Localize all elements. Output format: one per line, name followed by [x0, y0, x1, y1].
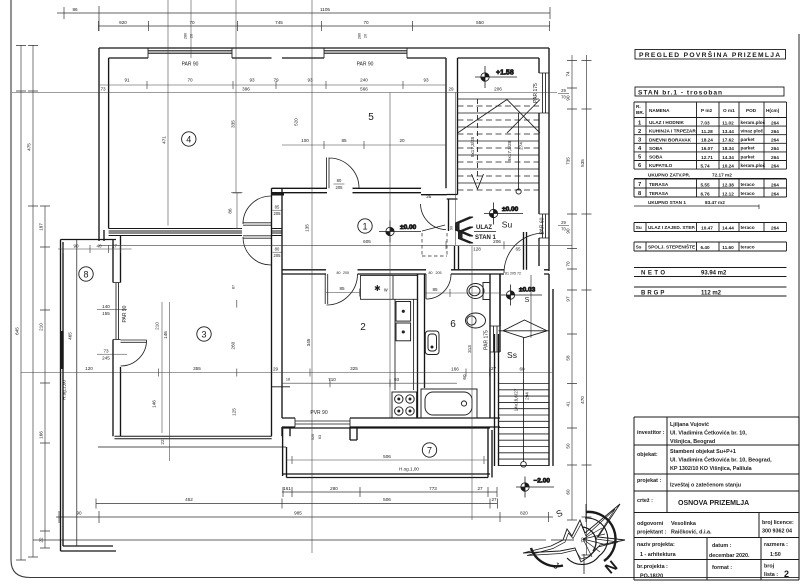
node compass-star [523, 504, 625, 562]
svg-text:razmera :: razmera : [764, 542, 788, 548]
wall terrace8 bottom [61, 546, 117, 551]
svg-text:645: 645 [15, 327, 20, 335]
svg-text:146: 146 [152, 400, 157, 408]
svg-text:10.24: 10.24 [722, 163, 734, 168]
svg-text:80: 80 [337, 178, 342, 183]
svg-text:85: 85 [275, 205, 280, 210]
svg-text:teraco: teraco [741, 182, 755, 187]
svg-text:80: 80 [429, 271, 433, 275]
svg-text:86: 86 [228, 208, 233, 214]
node washer dashed [422, 233, 447, 256]
svg-text:264: 264 [771, 163, 779, 168]
svg-text:264: 264 [771, 121, 779, 126]
svg-text:87: 87 [232, 285, 236, 289]
svg-text:710: 710 [328, 377, 336, 382]
svg-text:11.02: 11.02 [722, 121, 734, 126]
svg-text:projektant :: projektant : [637, 530, 667, 536]
wall vestibule left stub [455, 246, 459, 270]
svg-text:70: 70 [187, 78, 193, 83]
svg-text:90: 90 [566, 228, 571, 234]
wall kitchen sw notch [272, 386, 290, 388]
node room3 [197, 327, 211, 341]
window stair right PAR60 [539, 214, 549, 238]
node dimtexts [12, 0, 592, 560]
svg-text:60: 60 [462, 374, 467, 380]
node ss-center [523, 338, 525, 462]
wall top inner room5 [282, 57, 446, 59]
node tables [634, 50, 787, 297]
svg-text:decembar 2020.: decembar 2020. [709, 553, 750, 559]
svg-text:broj: broj [764, 564, 775, 570]
node wc1 [483, 283, 490, 300]
svg-text:80: 80 [275, 247, 280, 252]
svg-text:506: 506 [383, 454, 391, 459]
svg-text:±0.00: ±0.00 [502, 206, 519, 213]
svg-text:SOBA: SOBA [649, 146, 663, 151]
svg-text:70: 70 [566, 261, 571, 267]
svg-text:294: 294 [525, 392, 530, 400]
wire ticks bottom [59, 487, 549, 523]
door room5 [327, 158, 360, 189]
svg-text:206: 206 [493, 239, 501, 244]
svg-text:470: 470 [580, 396, 585, 404]
svg-text:datum :: datum : [712, 543, 732, 549]
node compass-arc-bold2 [531, 548, 563, 566]
node roomlabels [79, 112, 530, 457]
svg-text:155: 155 [102, 311, 110, 316]
svg-text:12.71: 12.71 [701, 155, 713, 160]
svg-text:773: 773 [429, 486, 437, 491]
svg-text:10.47: 10.47 [701, 226, 713, 231]
window terrace8 wall [113, 283, 121, 340]
svg-text:920: 920 [119, 20, 127, 25]
svg-text:±0.00: ±0.00 [400, 224, 417, 231]
svg-text:TERASA: TERASA [649, 182, 669, 187]
svg-text:205: 205 [343, 271, 349, 275]
node par labels [122, 62, 546, 417]
node compass-arc-inner [567, 518, 608, 565]
node room7 [422, 443, 436, 457]
wall left low stub [99, 230, 104, 241]
wall room5-hall band [272, 188, 422, 192]
svg-text:27: 27 [112, 244, 118, 249]
svg-text:135: 135 [305, 224, 310, 232]
svg-text:264: 264 [771, 182, 779, 187]
svg-text:w: w [384, 288, 388, 294]
svg-text:125: 125 [232, 408, 237, 416]
svg-text:72.17 m2: 72.17 m2 [712, 173, 732, 178]
svg-text:parket: parket [741, 137, 756, 142]
wall right inner [538, 58, 540, 266]
svg-text:63: 63 [318, 435, 322, 439]
wire ground line south [98, 446, 286, 448]
svg-text:260: 260 [231, 341, 236, 349]
node kitchen-sink2 [396, 323, 411, 341]
svg-text:teraco: teraco [741, 191, 755, 196]
node marker pm0.00 hall [379, 221, 421, 243]
wall south kitchen band [282, 418, 500, 427]
svg-text:P m2: P m2 [701, 108, 713, 113]
svg-text:20: 20 [399, 138, 405, 143]
svg-text:PREGLED POVRŠINA PRIZEMLJA: PREGLED POVRŠINA PRIZEMLJA [639, 50, 781, 59]
svg-text:6: 6 [450, 319, 456, 330]
svg-text:520: 520 [294, 118, 299, 126]
svg-text:70: 70 [363, 20, 369, 25]
wall landing right of bath [490, 274, 500, 352]
node walls [60, 48, 553, 551]
svg-text:74: 74 [566, 71, 571, 77]
svg-text:27: 27 [491, 366, 497, 371]
svg-text:ULAZ I ZAJED. STEP.: ULAZ I ZAJED. STEP. [648, 225, 695, 230]
svg-text:naziv projekta:: naziv projekta: [637, 542, 675, 548]
node dims-left [21, 45, 45, 560]
svg-text:O m1: O m1 [723, 108, 735, 113]
svg-text:format :: format : [712, 565, 732, 571]
svg-text:S: S [525, 297, 530, 304]
svg-text:parket: parket [741, 154, 756, 159]
svg-text:93: 93 [249, 78, 255, 83]
node su-treads [458, 99, 540, 183]
svg-text:ULAZ: ULAZ [476, 225, 492, 231]
svg-text:PVR 90: PVR 90 [310, 410, 327, 416]
svg-text:Vesolinka: Vesolinka [671, 521, 697, 527]
svg-text:18: 18 [286, 378, 290, 382]
svg-text:274: 274 [519, 142, 524, 150]
svg-text:120: 120 [85, 366, 93, 371]
svg-text:17.62: 17.62 [722, 138, 734, 143]
node ss-treads [499, 384, 550, 466]
svg-text:566: 566 [360, 87, 368, 92]
node dims-top [57, 13, 550, 26]
wall ss left band [495, 334, 499, 466]
node door jamb block [272, 193, 285, 196]
svg-text:70: 70 [189, 20, 195, 25]
node area-table-grid [634, 102, 787, 169]
door kitchen [325, 274, 357, 305]
wire ticks left [16, 46, 50, 561]
svg-text:vinaz ploč.: vinaz ploč. [741, 129, 765, 134]
wall bath right band [490, 274, 500, 418]
svg-text:65: 65 [515, 247, 521, 252]
svg-text:2: 2 [638, 129, 641, 135]
node doors [121, 158, 545, 367]
svg-text:300 9362 04: 300 9362 04 [762, 529, 792, 535]
svg-text:UKUPNO STAN 1: UKUPNO STAN 1 [648, 200, 686, 205]
svg-text:85: 85 [341, 138, 347, 143]
svg-text:29: 29 [561, 220, 566, 225]
node entry-chevron [456, 217, 474, 243]
svg-text:40: 40 [96, 244, 102, 249]
svg-text:Su: Su [502, 220, 513, 230]
node ss-triangle [499, 320, 550, 338]
svg-text:±0.03: ±0.03 [519, 287, 536, 294]
svg-text:280: 280 [184, 33, 188, 39]
svg-text:452: 452 [185, 497, 193, 502]
svg-text:9x17,3/28: 9x17,3/28 [470, 136, 475, 157]
node room1 [358, 219, 372, 233]
svg-text:90: 90 [450, 226, 454, 230]
window room4 top [148, 48, 232, 58]
svg-text:335: 335 [231, 120, 236, 128]
node su-row [634, 223, 787, 232]
svg-text:14x18,6/27: 14x18,6/27 [514, 388, 519, 411]
svg-text:41: 41 [566, 401, 571, 407]
wire extension lines vertical [162, 0, 472, 553]
svg-text:264: 264 [771, 146, 779, 151]
svg-text:11.60: 11.60 [722, 245, 734, 250]
svg-text:objekat:: objekat: [637, 452, 658, 458]
svg-text:PAR 90: PAR 90 [122, 305, 128, 322]
svg-text:STAN br.1 - trosoban: STAN br.1 - trosoban [638, 89, 723, 96]
svg-text:teraco: teraco [741, 245, 755, 250]
svg-text:161: 161 [283, 486, 291, 491]
svg-text:16.07: 16.07 [701, 146, 713, 151]
svg-text:POD: POD [746, 108, 757, 113]
node su-arrow [472, 174, 484, 189]
node area-table-rows78 [634, 179, 787, 197]
svg-text:325: 325 [350, 366, 358, 371]
svg-text:SOBA: SOBA [649, 155, 663, 160]
svg-text:79: 79 [273, 78, 279, 83]
svg-text:5: 5 [368, 112, 374, 123]
wall top inner stairwell [458, 57, 540, 59]
svg-text:Su: Su [636, 225, 642, 230]
node stairs [458, 99, 550, 467]
svg-text:investitor :: investitor : [637, 430, 665, 436]
window kitchen south [295, 418, 350, 427]
svg-text:br.projekta :: br.projekta : [637, 564, 668, 570]
svg-text:471: 471 [162, 136, 167, 144]
svg-text:264: 264 [771, 155, 779, 160]
svg-text:5.55: 5.55 [700, 182, 710, 187]
svg-text:73: 73 [100, 87, 106, 92]
svg-text:91: 91 [124, 78, 130, 83]
svg-text:745: 745 [275, 20, 283, 25]
svg-text:128: 128 [473, 247, 481, 252]
node table-header-pregled [635, 50, 786, 60]
svg-text:93: 93 [307, 78, 313, 83]
svg-text:14.44: 14.44 [722, 226, 734, 231]
node compass-arc-bold1 [586, 512, 616, 561]
wall top inner room4 [109, 57, 272, 59]
svg-text:12.38: 12.38 [722, 182, 734, 187]
node compass [523, 504, 625, 578]
svg-text:506: 506 [383, 497, 391, 502]
svg-text:1: 1 [362, 221, 367, 231]
svg-text:205: 205 [274, 253, 282, 258]
wire interior dim lines [12, 85, 572, 460]
node dim labels bottom [76, 486, 528, 516]
node terrace8 gate bar [60, 331, 64, 369]
svg-text:SPOLJ. STEPENIŠTE: SPOLJ. STEPENIŠTE [648, 243, 695, 250]
svg-text:29: 29 [273, 367, 279, 372]
wall top outer [99, 47, 549, 49]
wire landing line [530, 275, 532, 338]
wall landing jamb [524, 232, 527, 270]
svg-text:475: 475 [27, 143, 32, 151]
svg-text:Izveštaj o zatečenom stanju: Izveštaj o zatečenom stanju [670, 483, 741, 489]
svg-text:22: 22 [160, 439, 165, 445]
svg-text:25: 25 [426, 194, 432, 199]
svg-text:22: 22 [39, 537, 44, 543]
svg-text:70: 70 [561, 95, 566, 100]
node bath-sink [425, 331, 439, 355]
svg-text:313: 313 [467, 345, 472, 353]
svg-text:396: 396 [242, 87, 250, 92]
svg-text:97: 97 [566, 296, 571, 302]
svg-text:crtež :: crtež : [637, 498, 653, 504]
node compass-ticks [551, 504, 586, 574]
svg-text:Ul. Vladimira Ćetkovića br. 10: Ul. Vladimira Ćetkovića br. 10, [670, 429, 747, 437]
svg-text:UKUPNO ZATV.PR.: UKUPNO ZATV.PR. [648, 173, 690, 178]
svg-text:70: 70 [561, 227, 566, 232]
svg-text:85: 85 [339, 286, 345, 291]
node table-header-stan [635, 87, 784, 96]
wall left inner [108, 58, 110, 229]
window room5 top [324, 48, 407, 58]
wall hall south band [282, 270, 549, 274]
svg-text:205: 205 [436, 271, 442, 275]
door hall-entry [421, 204, 447, 231]
svg-text:240: 240 [360, 78, 368, 83]
svg-text:✱: ✱ [374, 284, 381, 293]
svg-text:1 - arhitektura: 1 - arhitektura [640, 552, 677, 558]
node titleblock continues [634, 417, 799, 580]
svg-text:12.12: 12.12 [722, 191, 734, 196]
svg-text:264: 264 [771, 191, 779, 196]
svg-text:90: 90 [566, 95, 571, 101]
svg-text:parket: parket [741, 146, 756, 151]
svg-text:5.74: 5.74 [700, 163, 710, 168]
svg-text:DNEVNI BORAVAK: DNEVNI BORAVAK [649, 137, 692, 142]
svg-text:245: 245 [102, 356, 110, 361]
svg-text:146: 146 [163, 331, 168, 339]
svg-text:Ul. Vladimira Ćetkovića br. 10: Ul. Vladimira Ćetkovića br. 10, Beograd, [670, 456, 772, 464]
svg-text:PAR 90: PAR 90 [357, 62, 374, 68]
svg-text:PAR 90: PAR 90 [182, 62, 199, 68]
node marker +1.58 [475, 66, 517, 88]
wall terrace8-room3 band [113, 236, 121, 437]
svg-text:NAMENA: NAMENA [649, 108, 670, 113]
svg-text:605: 605 [363, 239, 371, 244]
svg-text:keram.ploč: keram.ploč [741, 163, 766, 168]
node titleblock [0, 0, 1, 1]
svg-text:112 m2: 112 m2 [701, 291, 722, 297]
svg-text:20: 20 [190, 34, 194, 38]
node stove [392, 392, 417, 418]
svg-text:14.34: 14.34 [722, 155, 734, 160]
wall south room3 band [115, 436, 272, 439]
svg-text:Ljiljana Vujović: Ljiljana Vujović [670, 422, 709, 428]
svg-text:60: 60 [519, 367, 525, 372]
svg-text:13.44: 13.44 [722, 129, 734, 134]
wire ukupno underline2 [634, 205, 759, 207]
svg-text:187: 187 [39, 223, 44, 231]
svg-text:Ss: Ss [636, 245, 642, 250]
svg-text:550: 550 [476, 20, 484, 25]
svg-text:93: 93 [423, 78, 429, 83]
wall hall-landing band [421, 195, 458, 232]
svg-text:90: 90 [73, 244, 79, 249]
svg-text:8: 8 [83, 269, 88, 279]
wire ticks top [64, 6, 550, 31]
svg-text:PO-18/20: PO-18/20 [640, 574, 663, 580]
svg-text:520: 520 [311, 434, 315, 440]
node dim labels interior [62, 78, 530, 472]
svg-text:1:50: 1:50 [770, 552, 781, 558]
node levelmarkers [379, 66, 554, 498]
svg-text:18.34: 18.34 [722, 146, 734, 151]
svg-text:BR.: BR. [636, 110, 644, 115]
node kitchen-counter [360, 276, 417, 300]
node marker pm0.03 [501, 285, 542, 306]
svg-text:29: 29 [448, 87, 454, 92]
svg-text:OSNOVA PRIZEMLJA: OSNOVA PRIZEMLJA [678, 500, 749, 507]
svg-text:820: 820 [520, 511, 528, 516]
svg-text:odgovorni: odgovorni [637, 521, 664, 527]
svg-text:PAR 175: PAR 175 [533, 83, 539, 103]
svg-text:166: 166 [451, 367, 459, 372]
svg-text:H(cm): H(cm) [766, 108, 780, 113]
door terrace8-room3 [121, 340, 147, 366]
svg-text:KUHINJA I TRPEZAR.: KUHINJA I TRPEZAR. [649, 129, 697, 134]
svg-text:280: 280 [358, 33, 362, 39]
svg-text:PAR 175: PAR 175 [484, 330, 490, 350]
svg-text:keram.ploč: keram.ploč [741, 120, 766, 125]
svg-text:210: 210 [155, 322, 160, 330]
wall right outer [548, 48, 550, 271]
svg-text:−2.00: −2.00 [534, 478, 551, 485]
svg-text:4: 4 [186, 134, 191, 144]
svg-text:280: 280 [330, 486, 338, 491]
node windows [113, 48, 549, 427]
node compass-spokes [583, 528, 607, 557]
svg-text:20: 20 [364, 34, 368, 38]
node kitchen-sink1 [396, 302, 411, 322]
svg-text:735: 735 [566, 157, 571, 165]
window bath right [490, 326, 500, 352]
svg-text:R.: R. [636, 104, 641, 109]
svg-text:ULAZ I HODNIK: ULAZ I HODNIK [649, 120, 685, 125]
node dims-right [572, 55, 587, 555]
node room8 [79, 267, 93, 281]
svg-text:27: 27 [477, 486, 483, 491]
svg-text:3: 3 [201, 329, 206, 339]
svg-text:29: 29 [561, 88, 566, 93]
svg-text:7: 7 [638, 182, 641, 188]
wall room4 bottom band [109, 229, 282, 232]
svg-text:985: 985 [294, 511, 302, 516]
svg-text:KP 1302/10 KO Višnjica, Palil: KP 1302/10 KO Višnjica, Palilula [670, 466, 753, 472]
door room4 [243, 196, 271, 225]
svg-text:205: 205 [274, 211, 282, 216]
wall stairwell left band [446, 58, 458, 195]
wire ticks right [567, 61, 592, 556]
wire terrace8 fence line [76, 240, 78, 546]
node dim labels top [72, 7, 484, 39]
node area-table-text [636, 104, 780, 205]
svg-text:Stambeni objekat Su+P+1: Stambeni objekat Su+P+1 [670, 449, 736, 455]
svg-text:264: 264 [771, 129, 779, 134]
svg-text:355: 355 [193, 366, 201, 371]
svg-text:205: 205 [455, 225, 459, 231]
svg-text:7.03: 7.03 [700, 121, 710, 126]
node su-cross [458, 100, 541, 134]
svg-text:TERASA: TERASA [649, 191, 669, 196]
node titleblock-grid [634, 417, 799, 580]
node brgp [634, 287, 787, 296]
svg-text:73: 73 [103, 349, 109, 354]
